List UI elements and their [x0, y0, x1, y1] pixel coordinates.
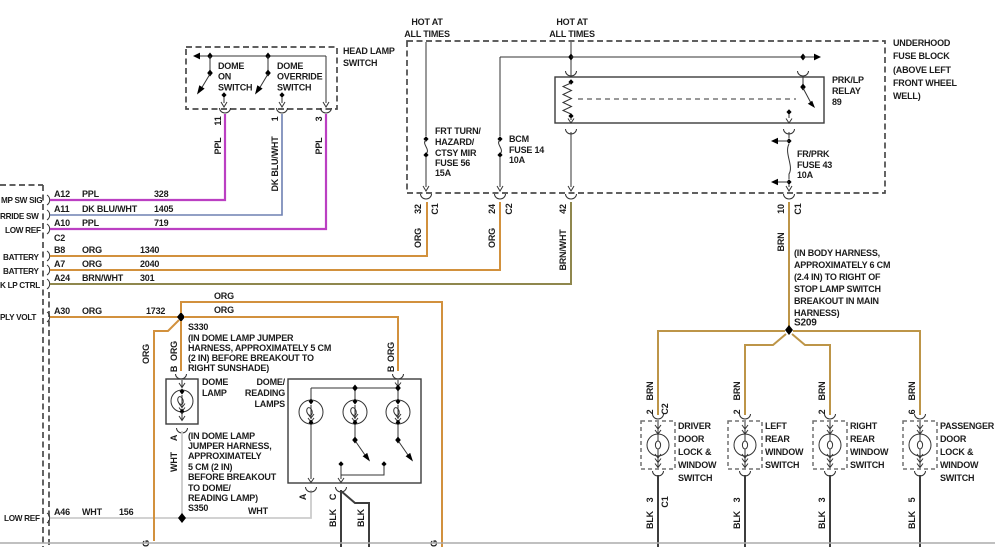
- svg-text:DOOR: DOOR: [678, 434, 705, 444]
- wire feed fuse 14: [499, 57, 501, 136]
- wire internal feed: [196, 55, 326, 57]
- wire relay coil to pin 42: [568, 132, 574, 191]
- left rear window switch: [728, 414, 762, 476]
- svg-text:3: 3: [732, 497, 742, 502]
- node rail junction bulb 3: [395, 385, 401, 392]
- svg-text:WELL): WELL): [893, 91, 921, 101]
- svg-text:HOT AT: HOT AT: [556, 17, 588, 27]
- relay switch lever: [803, 88, 815, 108]
- svg-text:DOME/: DOME/: [256, 377, 285, 387]
- wire WHT dome lamp pin A to splice S350: [181, 431, 183, 518]
- node pivot dome on: [207, 70, 213, 77]
- svg-text:PPL: PPL: [82, 218, 100, 228]
- arrow feed left: [193, 53, 200, 60]
- svg-text:FR/PRK: FR/PRK: [797, 149, 830, 159]
- svg-text:BLK: BLK: [645, 510, 655, 529]
- svg-text:BCM: BCM: [509, 134, 529, 144]
- wire BLK right rear: [829, 475, 831, 547]
- svg-text:11: 11: [213, 116, 223, 125]
- connector cup pin 42: [566, 194, 577, 199]
- svg-text:719: 719: [154, 218, 169, 228]
- wire BRN S209 outer branch left: [658, 331, 785, 415]
- svg-text:ORG: ORG: [413, 228, 423, 248]
- svg-text:C: C: [328, 493, 338, 500]
- svg-text:S330: S330: [188, 322, 208, 332]
- wire BRN S209 inner branch right: [792, 334, 830, 415]
- svg-text:ORG: ORG: [82, 259, 102, 269]
- fuse 14 label: [509, 134, 544, 165]
- svg-text:WINDOW: WINDOW: [678, 460, 717, 470]
- svg-text:MP SW SIG: MP SW SIG: [1, 196, 42, 205]
- relay coil terminal top: [568, 79, 573, 85]
- node feed junction dome override: [265, 53, 271, 60]
- pin A12 bracket: [47, 195, 50, 205]
- svg-text:C2: C2: [660, 403, 670, 414]
- svg-text:S209: S209: [794, 318, 817, 329]
- svg-text:LOCK &: LOCK &: [678, 447, 712, 457]
- wire bulb 2 to switch pivot: [354, 424, 356, 438]
- node rail junction bulb 2: [352, 385, 358, 392]
- svg-text:1732: 1732: [146, 306, 165, 316]
- svg-text:READING: READING: [245, 388, 285, 398]
- head lamp switch box: [186, 47, 337, 109]
- svg-text:42: 42: [558, 204, 568, 214]
- svg-text:A10: A10: [54, 218, 70, 228]
- splice S330 junction: [177, 312, 185, 322]
- svg-text:SWITCH: SWITCH: [765, 460, 799, 470]
- svg-text:READING LAMP): READING LAMP): [188, 493, 258, 503]
- svg-text:WINDOW: WINDOW: [940, 460, 979, 470]
- svg-text:10A: 10A: [509, 155, 526, 165]
- arrow contact dome on to pin 11: [221, 97, 227, 107]
- svg-text:WHT: WHT: [82, 507, 103, 517]
- wire stub dome on: [209, 56, 211, 73]
- right rear switch label: [850, 421, 889, 470]
- right rear window switch: [813, 414, 847, 476]
- svg-text:A: A: [169, 434, 179, 441]
- node switch 2 pivot: [352, 437, 358, 444]
- connector cup pin 24: [495, 194, 506, 199]
- svg-text:2: 2: [732, 409, 742, 414]
- node feed junction relay contact: [800, 54, 806, 61]
- pin B8 label row: [54, 245, 159, 255]
- svg-text:C1: C1: [660, 496, 670, 507]
- wire internal top rail: [311, 388, 398, 400]
- svg-text:(IN BODY HARNESS,: (IN BODY HARNESS,: [794, 248, 880, 258]
- underhood fuse block box: [407, 41, 885, 193]
- svg-text:2: 2: [645, 409, 655, 414]
- svg-text:A: A: [298, 493, 308, 500]
- pin A46 bracket: [47, 513, 50, 523]
- svg-text:SWITCH: SWITCH: [343, 58, 377, 68]
- relay coil terminal bottom: [568, 113, 573, 119]
- svg-text:BATTERY: BATTERY: [3, 253, 39, 262]
- svg-text:(ABOVE LEFT: (ABOVE LEFT: [893, 65, 952, 75]
- relay box PRK/LP RELAY 89: [555, 77, 824, 123]
- svg-text:TO DOME/: TO DOME/: [188, 483, 231, 493]
- svg-text:1: 1: [270, 116, 280, 121]
- wire relay contact stub: [802, 77, 804, 87]
- svg-text:PASSENGER: PASSENGER: [940, 421, 995, 431]
- node pivot dome override: [265, 70, 271, 77]
- svg-text:(IN DOME LAMP JUMPER: (IN DOME LAMP JUMPER: [188, 333, 294, 343]
- pin A12 label row: [54, 189, 169, 199]
- svg-text:ORG: ORG: [386, 342, 396, 362]
- svg-text:BLK: BLK: [328, 508, 338, 527]
- svg-text:1340: 1340: [140, 245, 159, 255]
- svg-text:15A: 15A: [435, 168, 452, 178]
- svg-text:PRK/LP: PRK/LP: [832, 75, 864, 85]
- svg-text:BRN: BRN: [817, 382, 827, 401]
- dome/reading lamps box: [288, 379, 421, 483]
- passenger switch label: [940, 421, 995, 483]
- dome lamp label: [202, 377, 228, 398]
- wire BLK pin C jog right down: [341, 491, 369, 547]
- wire ORG S330 upper branch going right and down page: [181, 302, 442, 547]
- fuse 14 BCM 10A: [497, 136, 502, 158]
- node HOT AT ALL TIMES 1: [404, 17, 450, 39]
- svg-text:A24: A24: [54, 273, 70, 283]
- wire fuse 14 to pin 24: [497, 156, 503, 191]
- dome override switch label: [277, 61, 323, 93]
- wire feed to relay contact: [571, 56, 803, 58]
- svg-text:LOCK &: LOCK &: [940, 447, 974, 457]
- svg-text:2: 2: [817, 409, 827, 414]
- connector box (body control module, partial): [0, 185, 49, 547]
- svg-text:APPROXIMATELY 6 CM: APPROXIMATELY 6 CM: [794, 260, 890, 270]
- svg-text:LOW REF: LOW REF: [5, 226, 41, 235]
- svg-text:A30: A30: [54, 306, 70, 316]
- svg-text:ORG: ORG: [82, 306, 102, 316]
- svg-text:HARNESS, APPROXIMATELY 5 CM: HARNESS, APPROXIMATELY 5 CM: [188, 343, 331, 353]
- passenger door lock and window switch: [903, 414, 937, 476]
- wire feed from HOT 2: [570, 42, 572, 77]
- reading lamp bulb 1: [299, 399, 323, 426]
- svg-text:BLK: BLK: [732, 510, 742, 529]
- svg-text:C2: C2: [504, 203, 514, 214]
- svg-text:DK BLU/WHT: DK BLU/WHT: [270, 136, 280, 192]
- svg-text:A46: A46: [54, 507, 70, 517]
- svg-text:A12: A12: [54, 189, 70, 199]
- pin A7 bracket: [47, 265, 50, 275]
- pin A7 label row: [54, 259, 159, 269]
- switch 2 lever: [356, 442, 370, 462]
- arrow pin C: [338, 478, 344, 483]
- pin A10 bracket: [47, 224, 50, 234]
- left rear switch label: [765, 421, 804, 470]
- pin A11 bracket: [47, 210, 50, 220]
- wire BRN pin 10 to splice S209: [788, 202, 790, 327]
- wire BLK pin C straight down: [340, 490, 342, 547]
- svg-text:RELAY: RELAY: [832, 86, 861, 96]
- wire stub dome override: [267, 56, 269, 73]
- svg-text:C1: C1: [793, 203, 803, 214]
- svg-text:K LP CTRL: K LP CTRL: [0, 281, 40, 290]
- wire ORG S330 to dome lamp pin B: [180, 321, 182, 371]
- svg-text:RIGHT: RIGHT: [850, 421, 878, 431]
- connector cup relay coil bottom: [566, 129, 577, 134]
- wire BLK passenger: [919, 475, 921, 547]
- node contact dome on: [221, 92, 226, 97]
- wire relay coil exit: [568, 117, 574, 123]
- connector cup dome lamp pin A: [177, 428, 188, 433]
- svg-text:LAMP: LAMP: [202, 388, 227, 398]
- arrow contact dome override to pin 1: [279, 97, 285, 107]
- wire relay to fuse 43: [788, 132, 790, 138]
- svg-text:DOOR: DOOR: [940, 434, 967, 444]
- pin A30 bracket: [47, 312, 50, 322]
- wire fuse 56 to pin 32: [423, 156, 429, 191]
- svg-text:BRN: BRN: [645, 382, 655, 401]
- switch lever dome on: [197, 74, 210, 95]
- svg-text:SWITCH: SWITCH: [678, 473, 712, 483]
- svg-text:B: B: [386, 365, 396, 372]
- node relay fixed contact: [786, 109, 791, 114]
- svg-text:DOME: DOME: [218, 61, 244, 71]
- svg-text:A7: A7: [54, 259, 65, 269]
- svg-text:S350: S350: [188, 503, 208, 513]
- driver door lock and window switch: [641, 414, 675, 476]
- reading lamp bulb 3: [386, 399, 410, 426]
- svg-text:BLK: BLK: [907, 510, 917, 529]
- svg-text:HAZARD/: HAZARD/: [435, 137, 475, 147]
- splice S209 junction: [785, 325, 793, 335]
- svg-text:UNDERHOOD: UNDERHOOD: [893, 38, 951, 48]
- svg-text:HEAD LAMP: HEAD LAMP: [343, 46, 395, 56]
- connector cup relay coil top: [566, 71, 577, 76]
- underhood fuse block label: [893, 38, 957, 101]
- relay label: [832, 75, 864, 107]
- splice S330 note: [188, 333, 331, 373]
- svg-text:STOP LAMP SWITCH: STOP LAMP SWITCH: [794, 284, 881, 294]
- svg-text:WINDOW: WINDOW: [765, 447, 804, 457]
- connector cup relay contact bottom: [784, 129, 795, 134]
- fuse 43 label: [797, 149, 832, 180]
- svg-text:32: 32: [413, 204, 423, 214]
- wire ORG S330 diagonal branch down page left: [154, 320, 179, 541]
- svg-text:LOW REF: LOW REF: [4, 514, 40, 523]
- svg-text:BLK: BLK: [356, 508, 366, 527]
- svg-text:10: 10: [776, 204, 786, 214]
- connector cup dome lamp pin B: [176, 374, 187, 379]
- pin A24 label row: [54, 273, 155, 283]
- svg-text:FUSE 14: FUSE 14: [509, 145, 544, 155]
- svg-text:FRT TURN/: FRT TURN/: [435, 126, 481, 136]
- svg-text:WHT: WHT: [248, 506, 269, 516]
- switch 3 lever: [399, 442, 413, 462]
- fuse 43 FR/PRK 10A element: [788, 144, 791, 179]
- pin A24 bracket: [47, 279, 50, 289]
- svg-text:ORG: ORG: [487, 228, 497, 248]
- svg-text:C1: C1: [430, 203, 440, 214]
- pin A11 label row: [54, 204, 173, 214]
- pin A10 label row: [54, 218, 169, 228]
- fuse 43 top terminal with test arrow: [771, 138, 792, 144]
- splice S350 junction: [178, 513, 186, 523]
- svg-text:3: 3: [314, 116, 324, 121]
- wire fuse 43 to pin 10: [786, 184, 792, 191]
- bottom border line: [0, 542, 995, 544]
- node feed junction relay coil: [568, 54, 574, 61]
- node HOT AT ALL TIMES 2: [549, 17, 595, 39]
- svg-text:REAR: REAR: [765, 434, 790, 444]
- wire PPL 328 A12 to headlamp switch pin 11: [50, 114, 225, 200]
- svg-text:156: 156: [119, 507, 134, 517]
- wire BRN S209 inner branch left: [745, 334, 786, 415]
- relay coil winding: [563, 83, 572, 114]
- svg-text:(2.4 IN) TO RIGHT OF: (2.4 IN) TO RIGHT OF: [794, 272, 881, 282]
- svg-text:FUSE BLOCK: FUSE BLOCK: [893, 51, 950, 61]
- svg-text:BRN: BRN: [732, 382, 742, 401]
- driver switch label: [678, 421, 717, 483]
- node switch 2 contact: [338, 461, 343, 466]
- svg-text:PLY VOLT: PLY VOLT: [0, 313, 36, 322]
- switch lever dome override: [255, 74, 268, 95]
- connector cup pin 10: [784, 194, 795, 199]
- svg-text:6: 6: [907, 409, 917, 414]
- wire internal ground rail to pin C: [341, 465, 384, 479]
- svg-text:DK BLU/WHT: DK BLU/WHT: [82, 204, 138, 214]
- svg-text:HOT AT: HOT AT: [411, 17, 443, 27]
- wire DK BLU/WHT 1405 A11 to headlamp switch pin 1: [50, 114, 282, 215]
- svg-text:5 CM (2 IN): 5 CM (2 IN): [188, 462, 233, 472]
- wire ORG S330 to dome/reading lamps pin B: [184, 317, 398, 371]
- svg-text:ALL TIMES: ALL TIMES: [549, 29, 595, 39]
- dome lamp box: [166, 379, 198, 424]
- svg-text:BRN/WHT: BRN/WHT: [82, 273, 124, 283]
- connector cup pin 3: [321, 108, 332, 113]
- dome/reading lamps label: [245, 377, 286, 409]
- svg-text:APPROXIMATELY: APPROXIMATELY: [188, 451, 262, 461]
- head lamp switch label: [343, 46, 395, 68]
- wire ORG 2040 A7 to fuse block pin 24: [50, 202, 500, 270]
- wire BRN/WHT 301 A24 to fuse block pin 42: [50, 202, 571, 284]
- dome on switch label: [218, 61, 252, 93]
- svg-text:SWITCH: SWITCH: [940, 473, 974, 483]
- svg-text:CTSY MIR: CTSY MIR: [435, 148, 477, 158]
- wire ORG 1732 A30 to splice S330: [50, 316, 178, 318]
- svg-text:RRIDE SW: RRIDE SW: [0, 212, 39, 221]
- pin A30 label row: [54, 306, 165, 316]
- svg-text:BEFORE BREAKOUT: BEFORE BREAKOUT: [188, 472, 277, 482]
- connector cup pin 32: [421, 194, 432, 199]
- node switch 3 pivot: [395, 437, 401, 444]
- svg-text:2040: 2040: [140, 259, 159, 269]
- svg-text:301: 301: [140, 273, 155, 283]
- svg-text:B: B: [169, 365, 179, 372]
- wire feed fuse 56: [425, 42, 427, 136]
- splice S350 note: [188, 431, 277, 513]
- svg-text:DOME: DOME: [277, 61, 303, 71]
- svg-text:PPL: PPL: [213, 137, 223, 155]
- svg-text:BREAKOUT IN MAIN: BREAKOUT IN MAIN: [794, 296, 879, 306]
- wire BRN S209 outer branch right: [793, 331, 920, 415]
- svg-text:DOME: DOME: [202, 377, 228, 387]
- svg-text:FUSE 56: FUSE 56: [435, 158, 470, 168]
- svg-text:DRIVER: DRIVER: [678, 421, 712, 431]
- svg-text:ORG: ORG: [82, 245, 102, 255]
- wire BLK driver: [657, 475, 659, 547]
- wire feed continuation arrow: [803, 54, 821, 61]
- connector cup relay contact top: [798, 71, 809, 76]
- svg-text:OVERRIDE: OVERRIDE: [277, 72, 323, 82]
- connector cup pin 11: [220, 108, 231, 113]
- wire ORG 1340 B8 to fuse block pin 32: [50, 202, 427, 256]
- svg-text:ALL TIMES: ALL TIMES: [404, 29, 450, 39]
- svg-text:B8: B8: [54, 245, 65, 255]
- svg-text:SWITCH: SWITCH: [277, 83, 311, 93]
- wire BLK left rear: [744, 475, 746, 547]
- svg-text:ORG: ORG: [141, 344, 151, 364]
- svg-text:REAR: REAR: [850, 434, 875, 444]
- node feed junction dome on: [207, 53, 213, 60]
- svg-text:BRN: BRN: [907, 382, 917, 401]
- svg-text:BRN: BRN: [776, 233, 786, 252]
- wire feed branch to BCM fuse: [500, 56, 572, 58]
- node contact dome override: [279, 92, 284, 97]
- pin B8 bracket: [47, 251, 50, 261]
- wire WHT 156 A46 to dome reading lamps pin A: [50, 490, 311, 518]
- svg-text:24: 24: [487, 204, 497, 214]
- svg-text:89: 89: [832, 97, 842, 107]
- svg-text:A11: A11: [54, 204, 70, 214]
- svg-text:SWITCH: SWITCH: [850, 460, 884, 470]
- svg-text:5: 5: [907, 497, 917, 502]
- svg-text:FRONT WHEEL: FRONT WHEEL: [893, 78, 957, 88]
- svg-text:LAMPS: LAMPS: [254, 399, 285, 409]
- node relay contact pivot: [800, 84, 806, 91]
- svg-text:WINDOW: WINDOW: [850, 447, 889, 457]
- fuse 56 label: [435, 126, 481, 178]
- svg-text:WHT: WHT: [169, 451, 179, 472]
- svg-text:3: 3: [817, 497, 827, 502]
- svg-text:(2 IN) BEFORE BREAKOUT TO: (2 IN) BEFORE BREAKOUT TO: [188, 353, 314, 363]
- svg-text:ORG: ORG: [169, 341, 179, 361]
- svg-text:ON: ON: [218, 72, 231, 82]
- arrow pin 3: [323, 102, 329, 107]
- relay linkage dashed: [578, 98, 796, 100]
- svg-text:ORG: ORG: [214, 291, 234, 301]
- node switch 3 contact: [381, 461, 386, 466]
- wire reading lamps internal feed from pin B: [395, 380, 401, 388]
- svg-text:LEFT: LEFT: [765, 421, 787, 431]
- dome lamp bulb: [171, 380, 193, 421]
- svg-text:10A: 10A: [797, 170, 814, 180]
- svg-text:PPL: PPL: [82, 189, 100, 199]
- wire PPL 719 A10 to headlamp switch pin 3: [50, 114, 326, 229]
- svg-text:PPL: PPL: [314, 137, 324, 155]
- connector cup reading lamps pin C: [336, 487, 347, 492]
- reading lamp bulb 2: [343, 399, 367, 426]
- svg-text:C2: C2: [54, 233, 65, 243]
- svg-text:JUMPER HARNESS,: JUMPER HARNESS,: [188, 441, 272, 451]
- svg-text:RIGHT SUNSHADE): RIGHT SUNSHADE): [188, 363, 269, 373]
- svg-text:(IN DOME LAMP: (IN DOME LAMP: [188, 431, 255, 441]
- connector cup reading lamps pin A: [306, 487, 317, 492]
- svg-text:FUSE 43: FUSE 43: [797, 160, 832, 170]
- svg-text:BATTERY: BATTERY: [3, 267, 39, 276]
- svg-text:1405: 1405: [154, 204, 173, 214]
- splice S209 note: [794, 248, 890, 318]
- svg-text:HARNESS): HARNESS): [794, 308, 840, 318]
- svg-text:SWITCH: SWITCH: [218, 83, 252, 93]
- wire pin 3 drop: [325, 56, 327, 103]
- wire bulb 1 to pin A: [308, 424, 314, 483]
- svg-text:BRN/WHT: BRN/WHT: [558, 229, 568, 271]
- wire relay contact exit: [786, 114, 792, 123]
- svg-text:BLK: BLK: [817, 510, 827, 529]
- svg-text:ORG: ORG: [214, 305, 234, 315]
